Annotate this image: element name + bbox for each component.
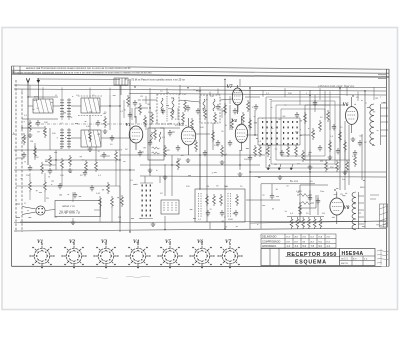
capacitor Cm3 (233, 108, 237, 114)
wire a25 (199, 155, 201, 189)
heater chain resistor Rh6 (319, 217, 322, 229)
long vertical wires (16, 79, 365, 232)
wire drops right (263, 88, 320, 105)
wire a7 (22, 127, 45, 129)
extra resistor Rx23 (121, 195, 124, 207)
wire drops antenna (22, 85, 30, 97)
wire a42 (20, 221, 120, 223)
wire v8 (339, 87, 341, 190)
wire a2 (22, 118, 58, 120)
svg-text:RED: RED (360, 187, 365, 189)
svg-text:9.0: 9.0 (319, 245, 323, 248)
wire a23 (164, 164, 166, 196)
wafer S3 box (161, 200, 179, 214)
resistor R5 (69, 155, 72, 167)
wire m1 (146, 104, 238, 130)
resistor Rn1 (302, 150, 305, 162)
capacitor Cn2 (336, 148, 340, 154)
resistor R9 (212, 130, 215, 142)
wire lower mid (14, 169, 135, 171)
tone control box U1 (195, 189, 245, 222)
svg-text:3.4: 3.4 (295, 245, 299, 248)
wire z1 (16, 156, 116, 186)
wire a17 (220, 99, 232, 100)
heater chain resistor Rh4 (308, 217, 311, 229)
capacitor C13 (73, 192, 77, 198)
heater chain resistor Rh5 (313, 217, 316, 229)
extra resistor Rx16 (295, 145, 298, 157)
wire a13 (49, 128, 51, 150)
wire drops left (43, 87, 110, 99)
wire a30 (140, 164, 260, 166)
resistor R13 (319, 120, 322, 132)
resistor R12 (254, 145, 257, 157)
resistor Ry2 (139, 103, 142, 115)
wire v4 (199, 87, 201, 190)
wire v5 (224, 79, 226, 230)
svg-text:1.2: 1.2 (327, 245, 331, 248)
svg-text:7.8: 7.8 (311, 245, 315, 248)
svg-text:25K: 25K (288, 93, 292, 95)
extra resistor Rx2 (34, 146, 37, 158)
ground g1 (28, 133, 33, 137)
wire a39 (300, 185, 328, 221)
value label specks (24, 91, 382, 221)
wire a27 (229, 105, 231, 130)
extra resistor Rx1 (23, 133, 26, 145)
capacitor Cy3 (196, 108, 200, 114)
extra resistor Rx19 (325, 160, 328, 172)
svg-text:P 1 - 75 M xn Para el xnxn c: P 1 - 75 M xn Para el xnxn cambio xnxnx … (125, 78, 185, 82)
heater chain resistor Rh1 (290, 217, 293, 229)
wire n1 (310, 120, 345, 160)
tube V6 output (346, 97, 358, 133)
wire a21 (196, 133, 210, 135)
capacitor Cm2 (186, 105, 190, 111)
diode arrows row (267, 164, 293, 170)
extra resistor Rx13 (259, 145, 262, 157)
wire a9 (101, 137, 130, 139)
extra resistor Rx20 (336, 160, 339, 172)
ground g10 (151, 222, 156, 226)
tube V2 IF amp (181, 118, 195, 155)
svg-text:50K: 50K (44, 122, 48, 124)
extra resistor Rx9 (184, 100, 187, 112)
resistor R4 (104, 116, 107, 128)
wire left rail dashed (15, 80, 17, 232)
capacitor Cy2 (161, 108, 165, 114)
svg-text:V4: V4 (232, 118, 238, 123)
svg-text:V3: V3 (179, 122, 185, 127)
resistor R17 (213, 194, 216, 206)
svg-text:25K: 25K (26, 175, 30, 177)
ground g6 (220, 160, 225, 164)
resistor Rm3 (214, 112, 217, 124)
wire a38 (361, 134, 363, 180)
resistor R3 (89, 130, 92, 142)
extra resistor Rx10 (191, 118, 194, 130)
resistor Rm2 (182, 112, 185, 124)
wire lower mid right (140, 176, 386, 177)
extra ground gx1 (163, 175, 168, 179)
wire a19 (135, 108, 148, 118)
wire v4b (206, 95, 208, 222)
extra capacitor Cx12 (58, 183, 62, 189)
IF transformer T5 (157, 94, 179, 124)
extra capacitor Cx9 (316, 198, 320, 204)
wire a32 (209, 222, 211, 229)
capacitor Cy5 (254, 104, 258, 110)
svg-text:n.a: n.a (319, 236, 323, 239)
capacitor C2 (96, 120, 100, 126)
svg-text:COMPROBADO: COMPROBADO (262, 240, 280, 243)
ground g4 (148, 168, 153, 172)
wire a41 (317, 195, 319, 215)
gang link dash-dot (35, 123, 170, 125)
capacitor Cy4 (216, 104, 220, 110)
svg-text:V1: V1 (126, 122, 131, 127)
svg-text:A: A (12, 70, 14, 74)
band switch S1 contact matrix (262, 121, 298, 145)
tube V7 detector (232, 85, 242, 114)
ground g7 (328, 155, 333, 159)
resistor R11 (231, 118, 234, 130)
resistor Ry1 (127, 95, 130, 107)
capacitor C4 (138, 150, 142, 156)
drawing frame border (12, 66, 390, 267)
extra resistor Rx11 (204, 108, 207, 120)
extra resistor Rx3 (49, 155, 52, 167)
capacitor C9 (358, 140, 362, 146)
wire a49 (159, 176, 161, 183)
extra resistor Rx18 (312, 128, 315, 140)
wire a28 (254, 110, 256, 135)
svg-text:10K: 10K (248, 127, 252, 129)
wire HT bus 1 (14, 85, 386, 88)
resistor R2 (44, 126, 47, 138)
ground g9 (71, 220, 76, 224)
extra capacitor Cx4 (248, 155, 252, 161)
title small cells text (341, 257, 368, 265)
svg-text:PU: PU (46, 198, 49, 200)
resistor Ry4 (224, 103, 227, 115)
resistor R1 (29, 120, 32, 132)
resistor R18 (220, 194, 223, 206)
wire v9 (364, 90, 366, 228)
wire a36 (344, 121, 346, 190)
svg-text:H5E94A: H5E94A (342, 251, 364, 257)
wire a35 (300, 134, 310, 136)
capacitor Cz2 (48, 168, 52, 174)
coil T3 (hatched) (78, 96, 103, 116)
wire a5 (71, 105, 81, 107)
extra capacitor Cx6 (318, 145, 322, 151)
svg-text:V8: V8 (344, 206, 350, 211)
extra ground gx4 (308, 165, 313, 169)
resistor Rm1 (151, 112, 154, 124)
wire b7 (119, 186, 121, 222)
svg-text:2M: 2M (30, 141, 33, 143)
resistor R16 (206, 194, 209, 206)
wire v2 (129, 79, 131, 232)
extra resistor Rx14 (267, 145, 270, 157)
coil T4 (hatched) (81, 130, 101, 147)
extra ground gx6 (88, 147, 93, 151)
resistor Rz2 (115, 150, 118, 162)
svg-text:u.n: u.n (295, 240, 299, 243)
capacitor C10 (206, 210, 210, 216)
revision table text (262, 236, 331, 248)
wire v1 (119, 85, 121, 232)
secondary wiring mesh (20, 79, 386, 229)
wire a47 (239, 79, 241, 86)
svg-text:a n: a n (34, 95, 39, 99)
antenna 1 (26, 78, 29, 165)
left lower network (16, 173, 120, 222)
wire a46 (55, 150, 57, 170)
wire b5 (72, 192, 74, 220)
svg-text:ESQUEMA: ESQUEMA (295, 260, 327, 266)
wire pickup to box (45, 210, 55, 211)
wire a14 (109, 95, 111, 130)
socket V4 base (125, 243, 150, 268)
wire b3 (30, 192, 45, 202)
resistor R19 (236, 194, 239, 206)
resistor R7 (177, 158, 180, 170)
resistor R6 (144, 115, 147, 127)
extra ground gx2 (238, 172, 243, 176)
extra resistor Rx26 (107, 182, 110, 194)
svg-text:n.u: n.u (319, 240, 323, 243)
coil T1 antenna transformer (33, 95, 53, 113)
extra capacitor Cx13 (83, 170, 87, 176)
right margin stubs (378, 75, 387, 136)
wire mid line left (14, 149, 120, 151)
extra capacitor Cx7 (353, 150, 357, 156)
wire top antenna line (38, 78, 120, 80)
capacitor C8 (313, 100, 317, 106)
bus drop wires (22, 85, 374, 105)
wire HT bus 2 (14, 89, 386, 91)
svg-text:auxnum mat Tnxnxxxxxxn: auxnum mat Tnxnxxxxxxn nxnxnxn mxaxn xnx… (26, 66, 131, 70)
svg-text:16m: 16m (320, 191, 324, 193)
wire a31 (144, 176, 146, 183)
power transformer T9 spring coil (352, 192, 364, 230)
wire a6 (100, 105, 120, 107)
svg-text:RECEPTOR 5950: RECEPTOR 5950 (287, 252, 337, 258)
band switch S1 frame wires (258, 118, 300, 145)
ground g3 (103, 129, 108, 133)
capacitor C1 (36, 120, 40, 126)
svg-text:B+ xnx: B+ xnx (290, 179, 299, 183)
wire a44 (129, 79, 131, 85)
extra resistor Rx7 (154, 128, 157, 140)
svg-text:a.n: a.n (295, 236, 299, 239)
wire b2 (30, 173, 45, 180)
wire v6 (249, 87, 251, 229)
capacitor C12 (234, 210, 238, 216)
tube V1 converter (129, 116, 143, 150)
rotary switch wafer S2 dots (142, 185, 152, 217)
tuning gang section L2 (60, 128, 71, 149)
wire a50 (246, 199, 280, 201)
wire v7 (309, 90, 311, 200)
antenna 2 (37, 78, 41, 100)
ground g5 (186, 158, 191, 162)
B+ loop wire (261, 184, 315, 229)
wire mid line (120, 154, 265, 156)
svg-text:20 AP 606 7u: 20 AP 606 7u (59, 211, 80, 215)
capacitor Cz3 (102, 152, 106, 158)
capacitor C5 (168, 130, 172, 136)
wire y1 (124, 96, 230, 120)
wire a18 (245, 96, 260, 98)
speaker field coil (370, 195, 388, 227)
nested feedback loop wires (266, 97, 340, 168)
svg-text:500K: 500K (228, 219, 234, 221)
resistor Rm4 (242, 112, 245, 124)
wire left rail 2 dashed (21, 92, 23, 232)
svg-text:2M: 2M (118, 217, 121, 219)
tube V8 rectifier (330, 192, 344, 225)
svg-text:union c m: union c m (62, 204, 75, 208)
resistor Rz1 (61, 158, 64, 170)
IF transformer T7 (200, 95, 220, 123)
pickup connector P1 (16, 204, 45, 218)
resistor R20 (99, 196, 102, 208)
phase inverter network wires (305, 91, 350, 160)
choke left of V6 (327, 110, 330, 122)
extra resistor Rx5 (95, 160, 98, 172)
wire a48 (179, 85, 181, 95)
capacitor C3 (110, 135, 114, 141)
long horizontal bus wires (14, 79, 386, 231)
resistor R21 (111, 196, 114, 208)
svg-text:5H: 5H (322, 213, 325, 215)
extra resistor Rx8 (164, 145, 167, 157)
wire ground bus (14, 228, 386, 231)
wire a15 (142, 99, 157, 101)
wire a11 (34, 143, 36, 160)
extra resistor Rx15 (287, 145, 290, 157)
svg-text:5.6: 5.6 (303, 245, 307, 248)
extra resistor Rx24 (29, 180, 32, 192)
wire a29 (239, 150, 241, 170)
ground g8 (351, 137, 356, 141)
resistor under V6 (339, 130, 342, 142)
socket V5 base (157, 243, 182, 268)
extra capacitor Cx5 (280, 150, 284, 156)
svg-text:5m: 5m (342, 179, 345, 181)
extra resistor Rx25 (44, 180, 47, 192)
header table (12, 66, 390, 77)
resistor R14 (329, 140, 332, 152)
wire a12 (89, 115, 91, 130)
resistor Ry3 (171, 108, 174, 120)
wire a20 (160, 127, 180, 129)
terminal strip below header (114, 78, 128, 95)
wire a8 (71, 137, 81, 139)
resistor R10 (221, 145, 224, 157)
wire a3 (28, 105, 33, 107)
resistor Rn2 (354, 155, 357, 167)
socket V6 base (189, 243, 214, 268)
tube V4 (235, 116, 247, 150)
faint pencil note below frame (96, 276, 150, 278)
oscillator section box T6 (148, 128, 164, 160)
svg-text:APROBADO: APROBADO (262, 245, 276, 248)
wire a1 (28, 96, 58, 98)
svg-text:1.2: 1.2 (287, 245, 291, 248)
extra capacitor Cx2 (176, 145, 180, 151)
wire a43 (250, 171, 386, 173)
margin scribbles right of title (377, 249, 389, 265)
wire drops mid (150, 88, 218, 95)
capacitor C14 (270, 193, 274, 199)
wafer S2 outline (140, 183, 153, 219)
extra capacitor Cx10 (90, 185, 94, 191)
svg-text:nx 1-1: nx 1-1 (341, 257, 348, 260)
wire a33 (224, 222, 226, 229)
capacitor C11 (220, 210, 224, 216)
svg-text:25K: 25K (210, 96, 214, 98)
ground g2 (68, 168, 73, 172)
svg-text:V6: V6 (343, 103, 349, 108)
wire a40 (309, 190, 311, 215)
extra capacitor Cx3 (216, 140, 220, 146)
socket V7 base (217, 243, 242, 268)
wire a37 (348, 125, 350, 185)
header row text (12, 66, 186, 81)
wire a10 (45, 159, 120, 161)
heater chain resistor Rh3 (302, 217, 305, 229)
capacitor Cy1 (133, 100, 137, 106)
svg-text:a Pxxnxx mod. ampl. final xnx: a Pxxnxx mod. ampl. final xnx (318, 84, 355, 88)
wire a22 (246, 134, 258, 136)
wire b6 (94, 209, 100, 211)
title block box (261, 249, 375, 266)
extra capacitor Cx8 (308, 195, 312, 201)
extra capacitor Cx11 (28, 165, 32, 171)
svg-text:1M: 1M (206, 186, 209, 188)
svg-text:A nnuxn rxnxxxaxnxnxn xaxnx: A nnuxn rxnxxxaxnxnxn xaxnxnxax xnxnxn a… (14, 70, 152, 74)
socket V1 base (29, 243, 54, 268)
scan speck labels (21, 89, 387, 227)
resistor R8 (195, 140, 198, 152)
socket V3 base (93, 243, 118, 268)
resistor Ry5 (247, 100, 250, 112)
wire b1 (16, 185, 120, 187)
capacitor Cz1 (22, 152, 26, 158)
heater chain top wire (287, 216, 324, 218)
wire b4 (100, 208, 112, 222)
extra resistor Rx4 (85, 160, 88, 172)
extra resistor Rx12 (249, 118, 252, 130)
extra ground gx3 (278, 175, 283, 179)
resistor R15 (344, 140, 347, 152)
capacitor C7 (228, 140, 232, 146)
tuning gang section L1 (60, 98, 71, 120)
pickup input box (55, 201, 101, 217)
revision table (261, 234, 336, 248)
wire AVC line (130, 94, 386, 96)
wire a34 (164, 216, 166, 229)
extra ground gx5 (343, 170, 348, 174)
ground bus second line (14, 221, 386, 223)
rectifier filter resistors (297, 194, 316, 208)
capacitor Cn1 (295, 112, 299, 118)
wire drops far right (330, 86, 374, 105)
